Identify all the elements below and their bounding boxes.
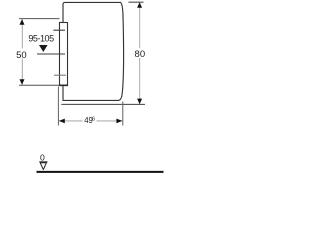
dim 80: top arrow [137,2,142,8]
svg-text:50: 50 [16,50,27,61]
grey dash [54,74,66,76]
dim 80: top extension line [129,1,144,3]
dim 49.6: line left segment [59,120,83,122]
dim 49.6: line right segment [97,120,123,122]
dim 80: vertical line [139,2,141,104]
water level line [37,53,65,55]
upper tick mark [53,29,65,31]
floor line [37,171,164,173]
dim 49.6: right extension line [122,102,124,126]
datum open triangle [40,163,46,170]
dim 50: text [16,49,28,59]
dim 50: top extension line [19,18,60,20]
dim 80: text [134,48,147,58]
svg-text:95-105: 95-105 [28,34,54,44]
product body outline (side view) [63,2,124,100]
dim 50: bottom arrow [20,79,25,85]
cistern tank rectangle [60,23,68,86]
svg-text:6: 6 [92,117,95,123]
dim 80: bottom arrow [137,99,142,105]
svg-text:80: 80 [135,49,146,60]
bottom reference line [61,103,145,105]
dim 49.6: left extension line [57,87,59,126]
dim 49.6: right arrow [116,119,122,124]
dim 49.6: left arrow [59,119,65,124]
dim 50: bottom extension line [19,84,59,86]
tank bottom thick edge [59,84,68,86]
dim 50: vertical line [21,19,23,85]
datum symbol bar [39,161,47,163]
water level triangle [39,45,48,52]
svg-text:0: 0 [40,153,45,163]
dim 50: top arrow [20,19,25,25]
